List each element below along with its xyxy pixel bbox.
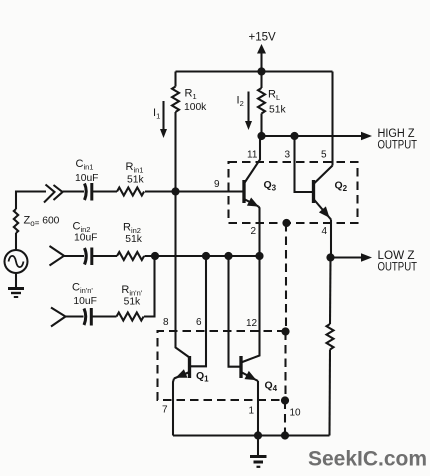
wire pin 5 (Q2 collector to rail) bbox=[331, 72, 333, 166]
svg-text:Rin2: Rin2 bbox=[123, 222, 141, 236]
svg-text:6: 6 bbox=[196, 317, 202, 328]
svg-text:100k: 100k bbox=[184, 102, 207, 113]
capacitor Cin1 bbox=[85, 184, 87, 201]
wire source top to Zo bbox=[15, 233, 17, 250]
svg-text:1: 1 bbox=[249, 406, 255, 417]
svg-text:51k: 51k bbox=[127, 175, 144, 186]
sine wave inside source bbox=[9, 256, 24, 267]
wire Q1 emitter down to bottom rail bbox=[173, 379, 174, 436]
wire Q3 base lead (node 9 line from inputs) bbox=[145, 190, 244, 192]
node dot on lower box top edge bbox=[281, 327, 289, 335]
resistor right load bbox=[327, 324, 334, 350]
svg-text:9: 9 bbox=[214, 179, 220, 190]
node: top junction dot bbox=[257, 67, 265, 75]
wire R1 branch upper bbox=[174, 72, 176, 87]
input chevrons row1 bbox=[44, 185, 55, 203]
svg-text:OUTPUT: OUTPUT bbox=[378, 139, 418, 151]
svg-text:11: 11 bbox=[247, 150, 258, 161]
node bottom rail dot pin 10 link bbox=[281, 431, 289, 439]
capacitor Cin2 bbox=[85, 248, 87, 265]
wire Cin2 to Rin2 bbox=[92, 255, 117, 257]
wire right branch lower bbox=[328, 350, 331, 436]
node bus dot pin 2/12 bbox=[255, 252, 263, 260]
svg-text:4: 4 bbox=[322, 226, 328, 237]
wire R1 bottom to node A bbox=[174, 112, 176, 192]
node bus dot pin 6 bbox=[202, 252, 210, 260]
node junction dot RL/Q3 collector (pin 11) bbox=[257, 132, 265, 140]
wire Q4 emitter down to bottom rail bbox=[257, 381, 259, 436]
svg-text:3: 3 bbox=[285, 150, 291, 161]
wire row1 to Cin1 bbox=[63, 190, 85, 192]
svg-text:51k: 51k bbox=[125, 234, 142, 245]
svg-text:R1: R1 bbox=[185, 88, 197, 102]
source Vg circle bbox=[5, 250, 28, 273]
wire HIGH Z output line bbox=[262, 135, 363, 137]
input chevron row3 bbox=[51, 308, 66, 327]
resistor Zo bbox=[14, 209, 18, 233]
svg-text:I1: I1 bbox=[153, 107, 160, 121]
wire pin 4 (Q2 emitter down) bbox=[330, 220, 332, 258]
wire RL branch upper bbox=[260, 72, 262, 89]
wire top rail +15V bbox=[176, 70, 333, 72]
wire row3 riser to bus bbox=[144, 256, 155, 317]
wire pin 12 (bus down to Q4 collector) bbox=[241, 256, 260, 363]
wire Q4 base from bus bbox=[229, 256, 242, 367]
wire row2 to Cin2 bbox=[64, 255, 84, 257]
wire pin 6 (bus down to Q1 base) bbox=[190, 256, 207, 366]
resistor RL bbox=[258, 88, 265, 113]
current arrow I1 bbox=[162, 101, 164, 130]
transistor Q3 bbox=[242, 180, 245, 203]
input chevron row2 bbox=[50, 246, 65, 266]
wire dashed link between boxes bbox=[285, 223, 287, 332]
svg-text:10: 10 bbox=[290, 408, 302, 419]
wire RL bottom to HIGH Z node bbox=[260, 114, 262, 137]
ground main bbox=[257, 436, 259, 457]
resistor Rin'n' bbox=[117, 313, 144, 321]
node bottom rail dot ground bbox=[254, 431, 262, 439]
node LOW Z dot bbox=[326, 253, 334, 261]
svg-text:10uF: 10uF bbox=[73, 296, 96, 307]
svg-text:+15V: +15V bbox=[249, 32, 277, 44]
svg-text:5: 5 bbox=[321, 150, 327, 161]
svg-text:Zo= 600: Zo= 600 bbox=[24, 215, 60, 229]
node dot on upper box bottom edge bbox=[282, 219, 290, 227]
svg-text:SeekIC.com: SeekIC.com bbox=[308, 448, 427, 471]
node A junction dot (R1/Rin1/base) bbox=[171, 187, 179, 195]
svg-text:Q2: Q2 bbox=[335, 180, 348, 194]
svg-text:10uF: 10uF bbox=[74, 233, 97, 244]
svg-text:Cin'n': Cin'n' bbox=[72, 282, 93, 296]
current arrow I2 bbox=[247, 92, 249, 123]
transistor Q2 bbox=[312, 180, 315, 203]
wire pin 11 (Q3 collector) bbox=[244, 136, 260, 184]
wire pin 8 (R1 node down to Q1 collector) bbox=[176, 192, 190, 358]
svg-text:RL: RL bbox=[268, 89, 280, 103]
capacitor Cin'n' bbox=[84, 309, 86, 326]
svg-text:I2: I2 bbox=[237, 95, 244, 109]
wire low-Z bus (row2 to Q3 emitter) bbox=[145, 255, 260, 257]
resistor R1 bbox=[172, 87, 179, 112]
wire LOW Z output line bbox=[331, 256, 363, 258]
node junction dot pin 3 tap bbox=[290, 132, 298, 140]
resistor Rin2 bbox=[117, 252, 144, 260]
+15V supply arrow bbox=[260, 52, 262, 72]
wire Cin1 to Rin1 bbox=[92, 190, 117, 192]
svg-text:7: 7 bbox=[162, 405, 168, 416]
svg-text:HIGH Z: HIGH Z bbox=[378, 128, 415, 140]
transistor Q4 bbox=[239, 356, 242, 378]
dashed box upper transistor array bbox=[229, 162, 358, 223]
svg-text:51k: 51k bbox=[124, 297, 141, 308]
svg-text:Q3: Q3 bbox=[264, 179, 277, 193]
wire dashed inside lower box bbox=[284, 332, 286, 401]
svg-text:OUTPUT: OUTPUT bbox=[378, 261, 418, 273]
svg-text:Rin1: Rin1 bbox=[126, 161, 144, 175]
svg-text:Q4: Q4 bbox=[265, 380, 278, 394]
wire Cin'n' to Rin'n' bbox=[92, 315, 117, 317]
svg-text:Q1: Q1 bbox=[196, 370, 209, 384]
node bus dot input n riser bbox=[151, 252, 159, 260]
svg-text:LOW Z: LOW Z bbox=[378, 250, 415, 262]
svg-text:2: 2 bbox=[251, 226, 257, 237]
resistor Rin1 bbox=[117, 188, 144, 196]
ground source bbox=[15, 273, 17, 288]
wire right branch upper bbox=[329, 258, 332, 325]
svg-text:10uF: 10uF bbox=[75, 173, 98, 184]
svg-text:51k: 51k bbox=[269, 105, 286, 116]
wire pin 2 (Q3 emitter down) bbox=[259, 207, 260, 257]
transistor Q1 bbox=[188, 356, 191, 378]
svg-text:Cin1: Cin1 bbox=[76, 158, 94, 172]
wire dashed pin10 to bottom rail bbox=[284, 401, 286, 436]
node bus dot Q4 base bbox=[224, 252, 232, 260]
wire bottom rail bbox=[173, 434, 330, 436]
node pin 10 dot bbox=[281, 396, 289, 404]
svg-text:Rin'n': Rin'n' bbox=[121, 284, 142, 298]
svg-text:12: 12 bbox=[246, 318, 258, 329]
wire row3 to Cin'n' bbox=[66, 315, 84, 317]
wire pin 3 (Q2 base from HIGH Z) bbox=[295, 136, 314, 192]
svg-text:8: 8 bbox=[163, 317, 169, 328]
dashed box lower transistor array bbox=[158, 331, 286, 400]
wire Zo top to input row1 bbox=[16, 192, 46, 210]
